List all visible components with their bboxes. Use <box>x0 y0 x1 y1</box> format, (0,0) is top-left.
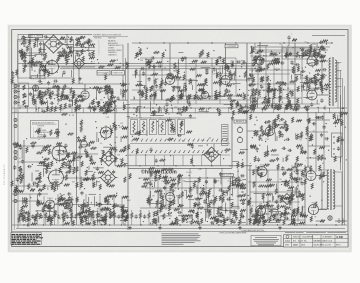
resistor R7 <box>19 174 21 179</box>
node on heater bus <box>304 107 305 108</box>
wire vertical segment <box>149 168 151 208</box>
switch section extra marks <box>135 119 193 137</box>
wire <box>175 79 196 81</box>
node on ground bus <box>257 224 258 225</box>
output grid network components <box>300 40 328 57</box>
notes paragraph <box>162 233 201 244</box>
wire vertical segment <box>265 46 267 96</box>
terminal post 3 <box>333 148 334 149</box>
wire <box>61 66 95 68</box>
rectifier filament components <box>253 162 305 178</box>
wire bus segment <box>248 169 305 171</box>
wire vertical segment <box>251 46 253 104</box>
node on ground bus <box>101 224 102 225</box>
wire <box>140 177 240 179</box>
preamp under components <box>60 95 94 116</box>
wire bus segment <box>249 97 302 99</box>
tube V2A <box>81 88 89 99</box>
wire <box>74 47 95 49</box>
wire vertical segment <box>267 170 269 220</box>
wire <box>247 130 266 132</box>
wire <box>79 210 81 213</box>
resistor bottom row 1 <box>19 213 21 219</box>
wire vertical segment <box>237 168 239 210</box>
tube V9 rectifier <box>257 165 267 177</box>
label box TUNER LEVEL <box>112 71 125 76</box>
switch section box 1 <box>131 120 138 135</box>
wire vertical segment <box>157 178 159 222</box>
node on ground bus <box>316 224 317 225</box>
wire vertical <box>249 165 251 225</box>
node on B+ bus <box>331 42 332 43</box>
wire <box>28 210 30 213</box>
wire <box>73 45 75 64</box>
wire <box>128 117 196 119</box>
input group box <box>19 83 29 106</box>
potentiometer P2 volume <box>237 136 242 143</box>
node on heater bus <box>285 107 286 108</box>
wire vertical segment <box>165 168 167 210</box>
wire bus segment <box>252 103 320 105</box>
wire heater stub <box>194 108 196 113</box>
wire speaker line <box>344 86 346 225</box>
node on heater bus <box>266 107 267 108</box>
capacitor bottom row 14 <box>135 214 138 219</box>
switch section box 3 <box>149 120 156 135</box>
wire <box>333 205 342 207</box>
label box BALANCE <box>234 120 246 123</box>
capacitor bottom row 13 <box>126 214 129 219</box>
wire vertical segment <box>177 66 179 104</box>
ground <box>128 226 132 229</box>
wire vertical segment <box>287 45 289 98</box>
voltage amp extra <box>137 57 249 100</box>
capacitor bottom row 8 <box>83 214 86 219</box>
node on ground bus <box>179 224 180 225</box>
wire <box>22 63 44 65</box>
wire left rail <box>17 34 19 228</box>
tape monitor components <box>141 173 246 225</box>
node on ground bus <box>335 224 336 225</box>
resistor bottom row 6 <box>62 213 64 219</box>
underline <box>242 231 267 233</box>
input jack J2 EXTRA <box>14 90 17 93</box>
jack column extra components <box>12 142 24 192</box>
wire vertical segment <box>113 194 115 224</box>
legend underline <box>93 35 128 37</box>
tube V10 <box>256 204 266 216</box>
wire <box>78 69 80 84</box>
wire heater stub <box>37 108 39 113</box>
switch feed components <box>109 145 131 167</box>
wire bus segment <box>250 191 300 193</box>
wire vertical segment <box>235 58 237 96</box>
tube V14 phono <box>64 200 73 209</box>
wire <box>84 84 86 91</box>
wire <box>17 96 20 98</box>
parts list table <box>11 233 43 245</box>
wire top rail left <box>18 33 92 35</box>
wire <box>28 219 30 226</box>
wire heater stub <box>26 108 28 113</box>
wire <box>85 63 96 65</box>
wire contact rail <box>130 154 230 156</box>
wire <box>250 46 330 48</box>
wire drop <box>154 155 156 166</box>
resistor in switch section 5 <box>171 121 173 133</box>
capacitor bottom row 5 <box>57 214 60 219</box>
wire <box>12 83 130 85</box>
wire <box>316 175 327 177</box>
wire vertical segment <box>281 44 283 100</box>
wire <box>122 210 124 213</box>
centre band extra components <box>121 84 246 112</box>
output grid components <box>284 45 325 59</box>
resistor bottom row 16 <box>148 213 150 219</box>
wire bus <box>18 63 260 65</box>
wire heater stub <box>317 108 319 113</box>
tone control section enclosure <box>18 40 74 78</box>
node on switch bus <box>193 165 194 166</box>
resistor in switch section 6 <box>180 121 182 133</box>
ground <box>278 226 282 229</box>
left rail components <box>11 69 18 84</box>
tube V4 <box>221 74 230 85</box>
wire heater stub <box>295 108 297 113</box>
tube V15 <box>166 190 175 202</box>
wire bus segment <box>250 51 300 53</box>
border frame <box>12 30 348 247</box>
output transformer T1 core <box>331 57 333 106</box>
node on switch bus <box>139 165 140 166</box>
input jack J10 phono L <box>14 193 17 196</box>
wire <box>140 207 240 209</box>
wire <box>55 204 64 206</box>
wire <box>12 88 110 90</box>
tube V3 <box>166 73 175 85</box>
tube V12 output <box>309 203 319 215</box>
switch section box 6 <box>178 120 185 135</box>
wire tap <box>336 62 342 64</box>
node on ground bus <box>82 224 83 225</box>
wire <box>36 219 38 226</box>
tube V7 output <box>307 88 317 100</box>
wire <box>61 177 99 179</box>
capacitor C1 <box>75 42 78 47</box>
node on switch bus <box>157 165 158 166</box>
tone control components right <box>56 36 74 60</box>
wire heater stub <box>116 108 118 113</box>
capacitor C1 <box>62 70 65 75</box>
wire heater stub <box>284 108 286 113</box>
wire vertical segment <box>145 58 147 100</box>
wire vertical segment <box>121 196 123 224</box>
label box EQUALIZATION <box>31 76 45 79</box>
wire drop <box>163 155 165 166</box>
tube V5 <box>256 55 264 65</box>
node on heater bus <box>247 107 248 108</box>
wire ground bus <box>12 224 347 226</box>
phono bottom extra components <box>21 191 127 227</box>
svg-text:222 SCHEMATIC: 222 SCHEMATIC <box>3 164 6 185</box>
wire <box>96 219 98 226</box>
wire drop <box>173 155 175 166</box>
wire AC top <box>312 35 345 37</box>
node on switch bus <box>211 165 212 166</box>
mode wiring components <box>62 148 104 190</box>
wire <box>114 210 116 213</box>
wire vertical segment <box>323 112 325 170</box>
wire bus segment <box>250 55 322 57</box>
node on B+ bus <box>139 42 140 43</box>
preamp band extra 2 <box>24 85 105 111</box>
input jack J9 <box>14 157 17 160</box>
capacitor bottom row 2 <box>31 214 34 219</box>
wire vertical segment <box>301 47 303 104</box>
wire bus segment <box>306 119 330 121</box>
wire <box>88 210 90 213</box>
resistor bottom row 11 <box>105 213 107 219</box>
output tube bias components <box>295 59 326 91</box>
switch contact row 1 <box>131 139 227 142</box>
ground <box>198 226 202 229</box>
wire <box>19 219 21 226</box>
wire <box>12 200 42 202</box>
wire heater stub <box>105 108 107 113</box>
wire <box>230 79 247 81</box>
resistor R8 <box>30 189 35 191</box>
terminal post 4 <box>333 153 334 154</box>
legend underline <box>32 123 57 125</box>
wire drop <box>135 155 137 166</box>
node on ground bus <box>238 224 239 225</box>
node on heater bus <box>228 107 229 108</box>
rotary switch S5 mode front <box>47 168 65 186</box>
wire <box>148 219 150 226</box>
wire bus segment <box>308 145 330 147</box>
mode area components <box>65 117 128 142</box>
wire <box>39 64 41 79</box>
node on switch bus <box>175 165 176 166</box>
pilot lamp PL1 <box>328 216 332 220</box>
driver stage components <box>250 116 303 162</box>
output transformer T1 secondary winding <box>335 60 337 102</box>
wire vertical segment <box>57 194 59 224</box>
wire switch bus <box>115 165 252 167</box>
power transformer T2 core <box>329 169 331 210</box>
wire plate supply <box>169 43 171 76</box>
wire vertical segment <box>273 52 275 104</box>
wire <box>19 40 44 42</box>
wire tap <box>336 70 342 72</box>
wire bus segment <box>249 73 290 75</box>
rotary switch S6 <box>99 125 113 139</box>
wire bus third <box>60 68 260 70</box>
wire bus segment <box>250 89 298 91</box>
wire vertical <box>231 118 233 168</box>
wire <box>17 91 20 93</box>
wire vertical segment <box>315 112 317 172</box>
mode switch components <box>61 141 100 188</box>
wire heater bus <box>12 107 347 109</box>
node on heater bus <box>19 107 20 108</box>
wire heater stub <box>138 108 140 113</box>
splitter band extra <box>254 52 296 74</box>
label box TAPE OUTPUT <box>221 174 234 177</box>
wire <box>88 219 90 226</box>
wire heater stub <box>239 108 241 113</box>
wire <box>17 102 20 104</box>
wire heater stub <box>127 108 129 113</box>
node on heater bus <box>171 107 172 108</box>
node on heater bus <box>114 107 115 108</box>
wire heater stub <box>329 108 331 113</box>
resistor bottom row 10 <box>96 213 98 219</box>
capacitor bottom row 6 <box>66 214 69 219</box>
resistor R fuse <box>320 220 325 222</box>
wire bus segment <box>249 69 296 71</box>
wire <box>29 94 79 96</box>
wire vertical segment <box>307 112 309 168</box>
wire tap <box>336 86 342 88</box>
wire bus segment <box>250 83 296 85</box>
wire vertical segment <box>219 66 221 104</box>
node on heater bus <box>342 107 343 108</box>
switch section box 5 <box>168 120 175 135</box>
capacitor bottom row 11 <box>109 214 112 219</box>
wire switch bus <box>128 167 232 169</box>
voltage amp band extra <box>140 64 244 100</box>
power supply components <box>247 179 305 225</box>
wire <box>53 210 55 213</box>
wire vertical <box>304 165 306 225</box>
wire top B+ bus <box>132 42 332 44</box>
approval text row <box>285 231 346 234</box>
node on heater bus <box>57 107 58 108</box>
resistor bottom row 14 <box>131 213 133 219</box>
output transformer T1 primary winding <box>329 58 331 105</box>
wire heater stub <box>82 108 84 113</box>
wire vertical bus <box>127 43 129 230</box>
node on B+ bus <box>163 42 164 43</box>
power transformer T2 secondary winding <box>333 170 335 209</box>
wire <box>79 219 81 226</box>
resistor R9 <box>38 189 43 191</box>
resistor R60 <box>292 39 297 41</box>
coupling network components <box>75 38 95 62</box>
resistor in switch section 2 <box>142 121 144 133</box>
resistor bottom row 5 <box>53 213 55 219</box>
wire heater stub <box>93 108 95 113</box>
node on ground bus <box>199 224 200 225</box>
tone box extra components <box>21 38 72 77</box>
capacitor bottom row 10 <box>100 214 103 219</box>
capacitor bottom row 4 <box>49 214 52 219</box>
resistor bottom row 13 <box>122 213 124 219</box>
resistor in switch section 1 <box>133 121 135 133</box>
heater bus components <box>133 102 249 119</box>
selector under components <box>96 100 130 116</box>
wire bus segment <box>248 219 305 221</box>
right feed components <box>306 115 330 164</box>
wire vertical segment <box>195 60 197 104</box>
resistor bottom row 7 <box>71 213 73 219</box>
wire <box>105 210 107 213</box>
resistor bottom row 4 <box>45 213 47 219</box>
node on heater bus <box>323 107 324 108</box>
selenium rectifier D1 <box>280 194 295 205</box>
input jack J8 <box>14 151 17 154</box>
tape bottom extra <box>143 180 246 226</box>
node on ground bus <box>43 224 44 225</box>
wire vertical bus <box>246 43 248 225</box>
tube V8 <box>266 125 275 136</box>
wire heater stub <box>183 108 185 113</box>
centre bottom extra components <box>149 167 246 226</box>
switch section box 2 <box>140 120 147 135</box>
wire heater stub <box>60 108 62 113</box>
wire heater stub <box>261 108 263 113</box>
tube V11 output <box>306 169 316 181</box>
capacitor bottom row 15 <box>143 214 146 219</box>
resistor R5 <box>23 100 25 105</box>
phase splitter components <box>250 43 282 72</box>
wire heater stub <box>161 108 163 113</box>
resistor R6 <box>19 166 21 171</box>
wire <box>61 153 98 155</box>
node on ground bus <box>296 224 297 225</box>
wire vertical segment <box>189 168 191 208</box>
wire heater stub <box>149 108 151 113</box>
driver extra components <box>250 112 307 164</box>
wire bus segment <box>176 95 246 97</box>
output quad extra <box>249 50 330 110</box>
wire bus segment <box>248 201 300 203</box>
wire heater stub <box>172 108 174 113</box>
wire <box>62 219 64 226</box>
tube V13 phono <box>46 197 55 209</box>
wire tap drop <box>342 78 344 225</box>
supply bottom extra components <box>253 181 304 226</box>
wire heater stub <box>49 108 51 113</box>
wire drop <box>182 155 184 166</box>
resistor R4 <box>23 93 25 98</box>
tube V1A <box>33 85 39 91</box>
tone out coupling components <box>76 36 95 57</box>
wire <box>288 40 290 46</box>
label box LOUDNESS <box>225 45 238 48</box>
ground <box>238 226 242 229</box>
wire vertical <box>114 100 116 166</box>
output stage B components <box>290 164 325 222</box>
label box PHONO LEVEL <box>97 71 110 76</box>
wire <box>114 219 116 226</box>
wire speaker feed <box>340 95 342 170</box>
node on switch bus <box>121 165 122 166</box>
node on heater bus <box>190 107 191 108</box>
wire tap <box>336 78 342 80</box>
node on heater bus <box>133 107 134 108</box>
title block <box>284 235 349 247</box>
node on B+ bus <box>187 42 188 43</box>
wire vertical segment <box>291 165 293 220</box>
wire <box>320 208 329 210</box>
wire vertical <box>125 58 127 100</box>
wire <box>122 219 124 226</box>
node on heater bus <box>38 107 39 108</box>
node on switch bus <box>229 165 230 166</box>
wire vertical segment <box>229 178 231 222</box>
